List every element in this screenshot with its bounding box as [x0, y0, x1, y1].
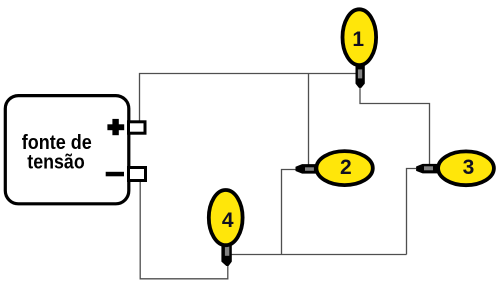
svg-text:4: 4 — [222, 209, 234, 232]
svg-text:2: 2 — [340, 156, 352, 179]
svg-text:3: 3 — [463, 156, 475, 179]
svg-text:tensão: tensão — [27, 151, 85, 174]
svg-text:1: 1 — [352, 28, 364, 51]
